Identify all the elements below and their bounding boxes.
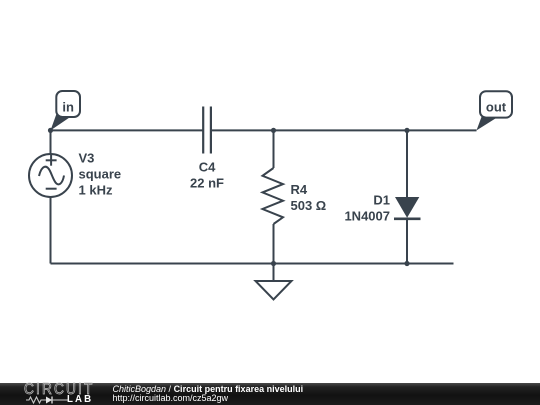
svg-text:1 kHz: 1 kHz: [79, 183, 113, 198]
diode D1: [394, 197, 421, 219]
label D1 value: [344, 193, 390, 224]
CircuitLab logo wordmark LAB: [67, 395, 93, 404]
credit text: [113, 385, 304, 402]
capacitor C4: [203, 107, 211, 154]
svg-text:R4: R4: [291, 182, 308, 197]
node junction top R4: [271, 128, 276, 133]
node junction top D1: [404, 128, 409, 133]
wire top-left (node to capacitor): [51, 129, 204, 131]
svg-text:22 nF: 22 nF: [190, 175, 224, 190]
label V3 value: [79, 151, 122, 198]
node junction bottom R4: [271, 261, 276, 266]
wire bottom rail: [51, 263, 454, 265]
ground: [256, 264, 292, 300]
CircuitLab logo glyph (zigzag + diode): [26, 395, 70, 405]
wire V3 bottom lead: [50, 197, 52, 264]
wire D1 bottom lead: [406, 219, 408, 264]
svg-text:V3: V3: [79, 151, 95, 166]
wire D1 top lead: [406, 130, 408, 197]
svg-text:D1: D1: [373, 193, 390, 208]
wire V3 top lead: [50, 130, 52, 154]
node label out: [477, 91, 513, 130]
svg-text:in: in: [62, 100, 74, 115]
CircuitLab logo wordmark CIRCUIT: [24, 383, 94, 396]
svg-text:out: out: [486, 100, 507, 115]
voltage source V3: [29, 154, 72, 197]
node junction at in: [48, 128, 53, 133]
wire top-right (capacitor to out): [211, 129, 477, 131]
wire R4 top lead: [273, 130, 275, 168]
node junction bottom D1: [404, 261, 409, 266]
svg-text:503 Ω: 503 Ω: [291, 198, 327, 213]
resistor R4: [263, 168, 284, 224]
svg-text:square: square: [79, 167, 122, 182]
label C4 value: [190, 159, 224, 190]
label R4 value: [291, 182, 327, 213]
svg-text:C4: C4: [199, 159, 216, 174]
svg-text:1N4007: 1N4007: [344, 209, 390, 224]
node label in: [51, 91, 81, 130]
footer bar: [0, 383, 540, 405]
wire R4 bottom lead: [273, 224, 275, 264]
